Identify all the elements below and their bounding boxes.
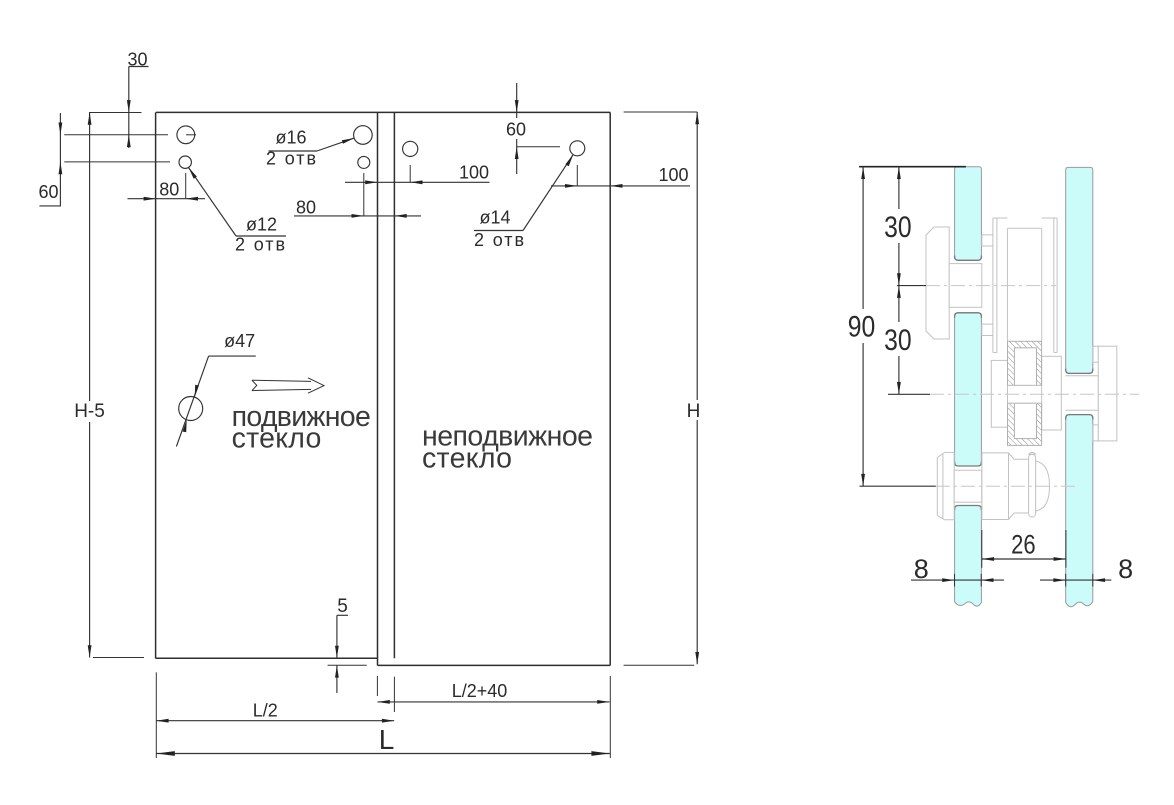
dimension 80 second <box>294 173 421 218</box>
hole C big right of movable <box>354 126 373 145</box>
svg-text:H-5: H-5 <box>74 401 105 422</box>
hole line row2 <box>64 161 170 163</box>
svg-text:5: 5 <box>337 596 348 617</box>
movable glass bottom edge <box>156 657 378 659</box>
hole D small <box>358 156 370 168</box>
svg-text:100: 100 <box>459 162 489 182</box>
svg-text:ø16: ø16 <box>275 128 306 148</box>
right glass segment 2 with break <box>1066 415 1093 607</box>
svg-text:2 отв: 2 отв <box>474 230 524 250</box>
movable glass right edge <box>393 112 395 658</box>
top roller hub <box>949 264 982 308</box>
left glass cut edge 1 <box>955 256 982 261</box>
dimension L/2+40 <box>378 681 610 704</box>
svg-text:90: 90 <box>848 311 876 344</box>
bottom roller flange inner line <box>942 454 944 519</box>
dimension 8 right <box>1040 554 1133 587</box>
svg-text:100: 100 <box>658 165 688 185</box>
hole B small left <box>179 156 191 168</box>
svg-text:80: 80 <box>159 180 179 200</box>
dimension H <box>624 112 703 665</box>
svg-text:L/2+40: L/2+40 <box>452 681 508 701</box>
movement direction arrow <box>252 378 324 393</box>
dimension 8 left <box>911 554 1004 587</box>
right glass cut edge 1 <box>1066 369 1093 374</box>
dimension 60 left <box>38 113 62 206</box>
svg-text:L/2: L/2 <box>253 701 278 721</box>
dimension 5 <box>328 596 367 693</box>
bottom roller flange <box>937 452 954 519</box>
dimension 90 <box>846 167 879 487</box>
bottom roller cap arc <box>1036 461 1050 511</box>
right glass segment 1 <box>1066 167 1093 373</box>
top clamp pad lower <box>982 324 993 335</box>
svg-text:ø12: ø12 <box>246 215 277 235</box>
bottom extension lines <box>155 672 157 758</box>
leader Ø14 <box>474 155 573 250</box>
top roller plate <box>926 227 949 339</box>
centerline top roller <box>897 285 926 287</box>
right glass cut edge 2 <box>1066 415 1093 420</box>
hole E fixed left <box>403 141 418 156</box>
svg-text:ø47: ø47 <box>224 331 255 351</box>
svg-text:2 отв: 2 отв <box>235 235 285 255</box>
bottom roller body joint line <box>1008 453 1010 520</box>
dimension 26 <box>982 529 1066 568</box>
svg-text:L: L <box>379 724 395 755</box>
dimension 60 second <box>506 83 560 174</box>
left glass segment 3 with break <box>955 506 982 607</box>
label подвижное стекло <box>232 401 371 455</box>
bushing top block hatched <box>1008 341 1042 385</box>
svg-text:26: 26 <box>1011 529 1036 559</box>
svg-text:8: 8 <box>914 554 929 584</box>
svg-text:ø14: ø14 <box>479 208 510 228</box>
fixed glass right edge <box>609 112 611 665</box>
svg-text:30: 30 <box>884 211 912 244</box>
left glass cut edge 3 <box>955 506 982 511</box>
hole G handle Ø47 <box>179 397 203 421</box>
right column beside bushing <box>1042 356 1062 430</box>
bolt band through bushing <box>1008 386 1041 403</box>
bottom roller body <box>982 453 1036 520</box>
svg-text:стекло: стекло <box>422 443 512 475</box>
top roller spool body <box>993 218 1057 353</box>
leader Ø12 <box>189 167 287 254</box>
washer tab bottom <box>1093 425 1098 441</box>
svg-text:стекло: стекло <box>232 423 322 455</box>
centerline main axle <box>888 393 930 395</box>
label неподвижное стекло <box>422 421 593 475</box>
dimension 100 first <box>345 162 490 184</box>
top reference line <box>859 166 966 168</box>
svg-text:8: 8 <box>1118 554 1133 584</box>
leader Ø16 <box>266 128 354 169</box>
fixed glass bottom edge <box>378 664 611 666</box>
bottom roller top bump <box>1029 452 1036 454</box>
dimension H-5 <box>69 113 144 658</box>
svg-text:80: 80 <box>296 198 316 218</box>
movable glass left edge <box>155 112 157 658</box>
dimension 30 upper <box>882 167 915 395</box>
hole F fixed right <box>570 141 585 156</box>
dimension L/2 <box>156 701 394 723</box>
hole line row1 <box>64 134 168 136</box>
dimension L <box>156 724 610 756</box>
left column beside bushing <box>991 360 1007 427</box>
bushing bottom block hatched <box>1008 403 1042 445</box>
svg-text:H: H <box>687 401 701 422</box>
fixed glass left edge <box>377 112 379 665</box>
bottom roller hub <box>954 470 982 502</box>
leader Ø47 <box>176 331 255 447</box>
dimension 100 second <box>551 165 690 188</box>
dimension 80 first <box>128 173 206 201</box>
left glass segment 2 <box>955 313 982 466</box>
left glass segment 1 <box>955 167 982 261</box>
top clamp pad upper <box>982 235 993 246</box>
hole A big left <box>177 126 195 144</box>
bolt through right glass <box>1065 376 1098 411</box>
svg-text:60: 60 <box>506 120 526 140</box>
washer tab top <box>1093 346 1098 362</box>
knob <box>1098 346 1117 441</box>
centerline bottom roller <box>860 485 936 487</box>
bottom roller rim <box>1029 454 1036 517</box>
svg-text:30: 30 <box>884 324 912 357</box>
dimension 30 top-left <box>127 50 149 149</box>
left glass cut edges 2 <box>955 313 982 318</box>
glass panel top edge <box>156 111 610 113</box>
svg-text:60: 60 <box>38 182 58 202</box>
